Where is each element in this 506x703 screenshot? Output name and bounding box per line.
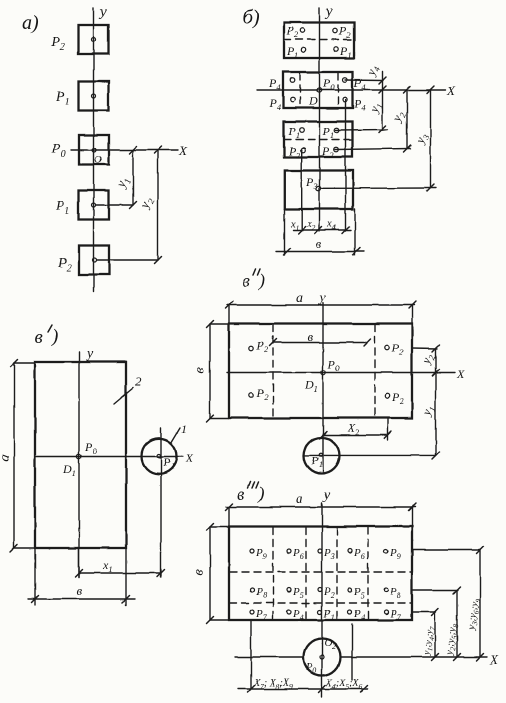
figure v': extension line axis bottom [78, 548, 80, 577]
figure b: cap rectangle 3 (P1/P2 group) [284, 122, 353, 158]
figure a: label P2 top [50, 35, 65, 53]
figure v''': row1 pile circles [250, 549, 388, 553]
figure b: scheme label б) [243, 7, 260, 29]
figure b: wire from right P4 top circle to dim [345, 79, 383, 82]
figure b: extension lines for width dim [285, 209, 356, 255]
figure v'': right dimension vertical y2/y1 [418, 345, 439, 460]
figure b: wire from right P2 circle to dim [336, 149, 411, 150]
figure v': leader 2 [114, 374, 142, 404]
figure v'': foundation slab rectangle [229, 324, 412, 419]
figure b: x dimension line with ticks [293, 227, 351, 234]
figure v': scheme label в') [34, 325, 58, 348]
svg-text:Х: Х [456, 367, 465, 381]
figure a: scheme label а) [22, 12, 39, 34]
figure b: rect3 labels P1 P1 P2 P2 [288, 124, 335, 160]
figure b: rect1 labels P2 P2 P1 P1 [286, 24, 352, 61]
figure v'': dimension x2 [320, 421, 392, 439]
figure v'': dimension a top [226, 291, 416, 309]
figure v''': dimension y3 y6 y9 vertical [466, 547, 484, 661]
figure v'': extension lines top corners [229, 305, 412, 324]
svg-text:у: у [322, 488, 331, 503]
figure v''': pile circle O2 P0 [304, 637, 341, 676]
figure v': extension lines for width b [35, 548, 126, 605]
svg-text:у: у [98, 4, 107, 20]
figure b: wire from right P1 circle to dim [336, 129, 389, 132]
figure a: dimension line y2 [136, 147, 161, 264]
svg-text:): ) [51, 326, 58, 347]
figure v''': scheme label в''') [237, 482, 264, 504]
svg-text:): ) [258, 270, 265, 291]
figure b: extension line left circle column [301, 150, 303, 231]
svg-text:у: у [85, 347, 94, 362]
figure b: axis X [257, 83, 456, 98]
svg-text:1: 1 [181, 422, 187, 436]
figure v''': labels x4 x5 x6 [325, 678, 363, 691]
figure a: origin label O [94, 154, 102, 166]
figure v'': center point P0 D1 [304, 357, 340, 394]
figure v''': dashed column lines [273, 528, 368, 620]
svg-text:Х: Х [178, 143, 188, 158]
figure b: rect2 pile circles [290, 78, 347, 102]
figure v''': dimension y2 y5 y8 vertical [444, 587, 461, 661]
figure a: wire from P1 lower to dim y1 [96, 204, 133, 206]
figure v': pile circle P1 [142, 439, 177, 474]
figure v'': wire from pile center to dim [304, 454, 436, 456]
figure b: dimension y2 vertical [389, 86, 410, 152]
figure v': extension line pile bottom [160, 428, 162, 577]
svg-text:О: О [94, 154, 102, 166]
figure v': dimension b [28, 583, 135, 603]
figure b: axis Y [320, 4, 334, 231]
figure v'': labels P2 [256, 339, 405, 407]
figure a: load square P0 [79, 136, 109, 165]
figure v': dimension x1 [76, 558, 165, 577]
figure v'': dimension b left [192, 321, 229, 423]
figure v'': extension pile column right [387, 418, 389, 440]
figure v''': dimension y1 y4 y7 vertical [421, 609, 439, 661]
figure a: axis Y [94, 4, 108, 292]
figure b: P3 circle and label [305, 175, 321, 191]
figure v''': extension line col1 [250, 620, 252, 690]
figure a: label P1 upper [55, 90, 70, 108]
figure v': leader 1 [171, 422, 187, 443]
figure v'': axis Y [317, 291, 326, 474]
svg-text:Х: Х [489, 652, 499, 667]
figure v''': wire row2 to dim [412, 589, 458, 591]
svg-text:D: D [308, 94, 318, 108]
figure b: dimension y3 vertical [412, 86, 434, 192]
figure a: axis X [71, 143, 188, 158]
svg-text:в: в [34, 327, 42, 348]
figure v': center point P0 [62, 440, 97, 478]
figure v'': axis X [227, 367, 465, 381]
svg-text:Х: Х [446, 83, 456, 98]
svg-text:а: а [296, 492, 303, 507]
figure v'': pile circle P1 [304, 438, 340, 474]
figure a: label P1 lower [55, 199, 70, 217]
svg-text:2: 2 [135, 374, 142, 389]
svg-text:в: в [316, 236, 322, 251]
svg-text:в: в [76, 583, 82, 598]
figure v'': dashed pile column lines [273, 325, 375, 418]
figure v''': extension line col4 [351, 624, 353, 680]
figure v': axis Y [79, 347, 94, 577]
svg-text:в: в [237, 484, 245, 504]
svg-text:): ) [257, 483, 264, 504]
figure a: label P0 [51, 142, 66, 160]
figure b: extension line right circle column [345, 100, 347, 231]
figure b: width dimension b [276, 236, 364, 255]
figure a: load square P1 lower [79, 191, 109, 220]
figure v''': row2 labels P8 P5 P2 P5 P8 [255, 586, 401, 600]
figure v''': dimension a top [226, 492, 416, 511]
figure a: load square P1 upper [79, 82, 109, 111]
figure v''': foundation slab rectangle [229, 527, 412, 621]
figure v''': axis X [235, 652, 499, 667]
svg-text:б): б) [243, 7, 260, 29]
figure v'': pile circles P2 x4 [249, 346, 390, 398]
svg-text:в: в [242, 271, 250, 291]
figure v': axis X [35, 451, 194, 465]
figure a: load square P2 bottom [79, 246, 109, 275]
figure v': foundation slab rectangle [35, 362, 126, 548]
figure v': extension lines top [14, 363, 35, 548]
figure a: wire from P2 bottom to dim y2 [97, 259, 158, 261]
figure v'': wire from right P2 top to dim [412, 347, 437, 350]
figure v''': dimension b left [191, 524, 229, 624]
figure v': dimension a vertical [0, 360, 18, 552]
figure b: cap rectangle 4 (P3) [285, 171, 353, 210]
figure b: rect2 labels P4 x4, P0, D [268, 76, 366, 113]
figure v'': inner dimension b [270, 329, 371, 346]
svg-text:у: у [324, 4, 333, 20]
figure a: dimension line y1 [112, 147, 136, 209]
figure v''': wire row3 to dim [412, 611, 436, 613]
figure v''': labels x7 x8 x9 [253, 678, 293, 691]
figure b: rect3 pile circles [300, 128, 339, 153]
figure a: label P2 bottom [57, 256, 72, 274]
figure b: wire from P3 circle to dim [321, 187, 436, 189]
figure b: labels x1 x2 x4 [290, 219, 337, 232]
figure v''': row2 pile circles [250, 588, 388, 592]
figure v''': wire row1 to dim [412, 549, 480, 551]
figure b: rect1 pile circles [301, 28, 338, 52]
figure v''': row3 pile circles [250, 610, 388, 614]
figure b: dimension y4/y1 vertical [363, 63, 386, 133]
figure v''': row3 labels P7 P4 P1 P4 P7 [255, 608, 402, 622]
figure v''': axis Y [322, 488, 331, 697]
figure v''': dashed row lines [230, 572, 411, 603]
svg-text:а): а) [22, 12, 39, 34]
figure b: cap rectangle 2 (P4/P0 group) [283, 72, 353, 108]
svg-text:Х: Х [185, 451, 194, 465]
svg-text:а: а [296, 291, 303, 306]
figure v''': row1 labels P9 P6 P3 P6 P9 [255, 547, 401, 561]
svg-text:в: в [308, 329, 314, 344]
figure v''': extension lines top corners [229, 507, 412, 527]
figure b: cap rectangle 1 (P2/P1 group) [284, 23, 354, 59]
figure a: load square P2 top [79, 25, 109, 54]
figure v''': bottom dimension line [238, 686, 368, 693]
figure v'': scheme label в'') [242, 269, 265, 291]
svg-text:у: у [317, 291, 326, 306]
